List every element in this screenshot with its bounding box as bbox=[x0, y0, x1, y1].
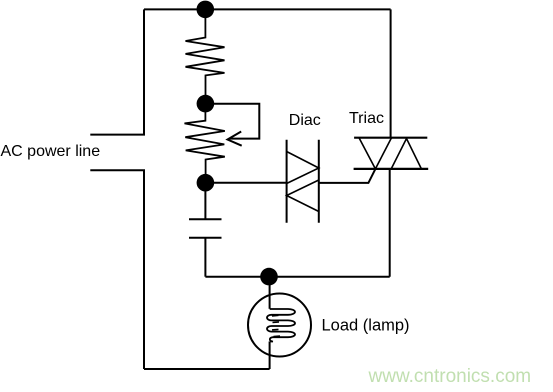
wire: AC terminal lower stub bbox=[90, 169, 145, 171]
wire: lamp bottom lead bbox=[269, 342, 271, 370]
triac Q1 top lead (MT2) bbox=[390, 9, 392, 137]
diac D1 lower triangle bbox=[287, 180, 319, 212]
potentiometer arrow head bbox=[228, 132, 242, 146]
node: junction dot between potentiometer and capacitor bbox=[197, 174, 215, 192]
svg-text:www.cntronics.com: www.cntronics.com bbox=[368, 366, 532, 387]
potentiometer VR1 bbox=[185, 104, 225, 183]
svg-text:Diac: Diac bbox=[289, 112, 321, 129]
triac Q1 bottom lead (MT1) bbox=[389, 169, 391, 277]
wire: junction to lamp bbox=[269, 277, 271, 309]
triac Q1 right triangle bbox=[391, 139, 421, 169]
triac Q1 bottom bar bbox=[354, 168, 429, 170]
wire: left rail upper segment bbox=[143, 9, 145, 134]
wire: junction to diac bbox=[205, 182, 286, 184]
wire: bottom horizontal from capacitor to triac bbox=[205, 276, 389, 278]
wire: bottom rail bbox=[144, 368, 270, 370]
svg-text:AC power line: AC power line bbox=[1, 143, 101, 160]
capacitor C1 top plate bbox=[189, 218, 222, 220]
capacitor C1 bottom plate bbox=[189, 237, 222, 239]
svg-text:Load (lamp): Load (lamp) bbox=[322, 317, 410, 335]
wire: wiper connection loop bbox=[205, 104, 259, 139]
triac Q1 top bar bbox=[354, 137, 427, 139]
wire: diac to triac gate bbox=[319, 169, 376, 183]
node: top junction dot bbox=[197, 1, 215, 19]
capacitor C1 bottom lead bbox=[204, 238, 206, 277]
wire: top rail bbox=[144, 8, 391, 10]
resistor R1 bbox=[186, 9, 225, 103]
diac D1 upper triangle bbox=[287, 152, 319, 184]
diac D1 left bar bbox=[286, 140, 288, 223]
lamp envelope circle bbox=[248, 294, 311, 357]
svg-text:Triac: Triac bbox=[349, 110, 384, 127]
node: junction dot between R1 and potentiometer bbox=[197, 95, 215, 113]
triac Q1 left triangle bbox=[359, 138, 392, 169]
wire: left rail lower segment bbox=[143, 170, 145, 369]
lamp filament coil crossing ticks bbox=[272, 315, 280, 336]
capacitor C1 top lead bbox=[204, 183, 206, 220]
wire: AC terminal upper stub bbox=[90, 134, 145, 136]
lamp filament coil bbox=[267, 309, 295, 342]
node: junction dot above lamp bbox=[260, 268, 278, 286]
diac D1 right bar bbox=[318, 140, 320, 223]
